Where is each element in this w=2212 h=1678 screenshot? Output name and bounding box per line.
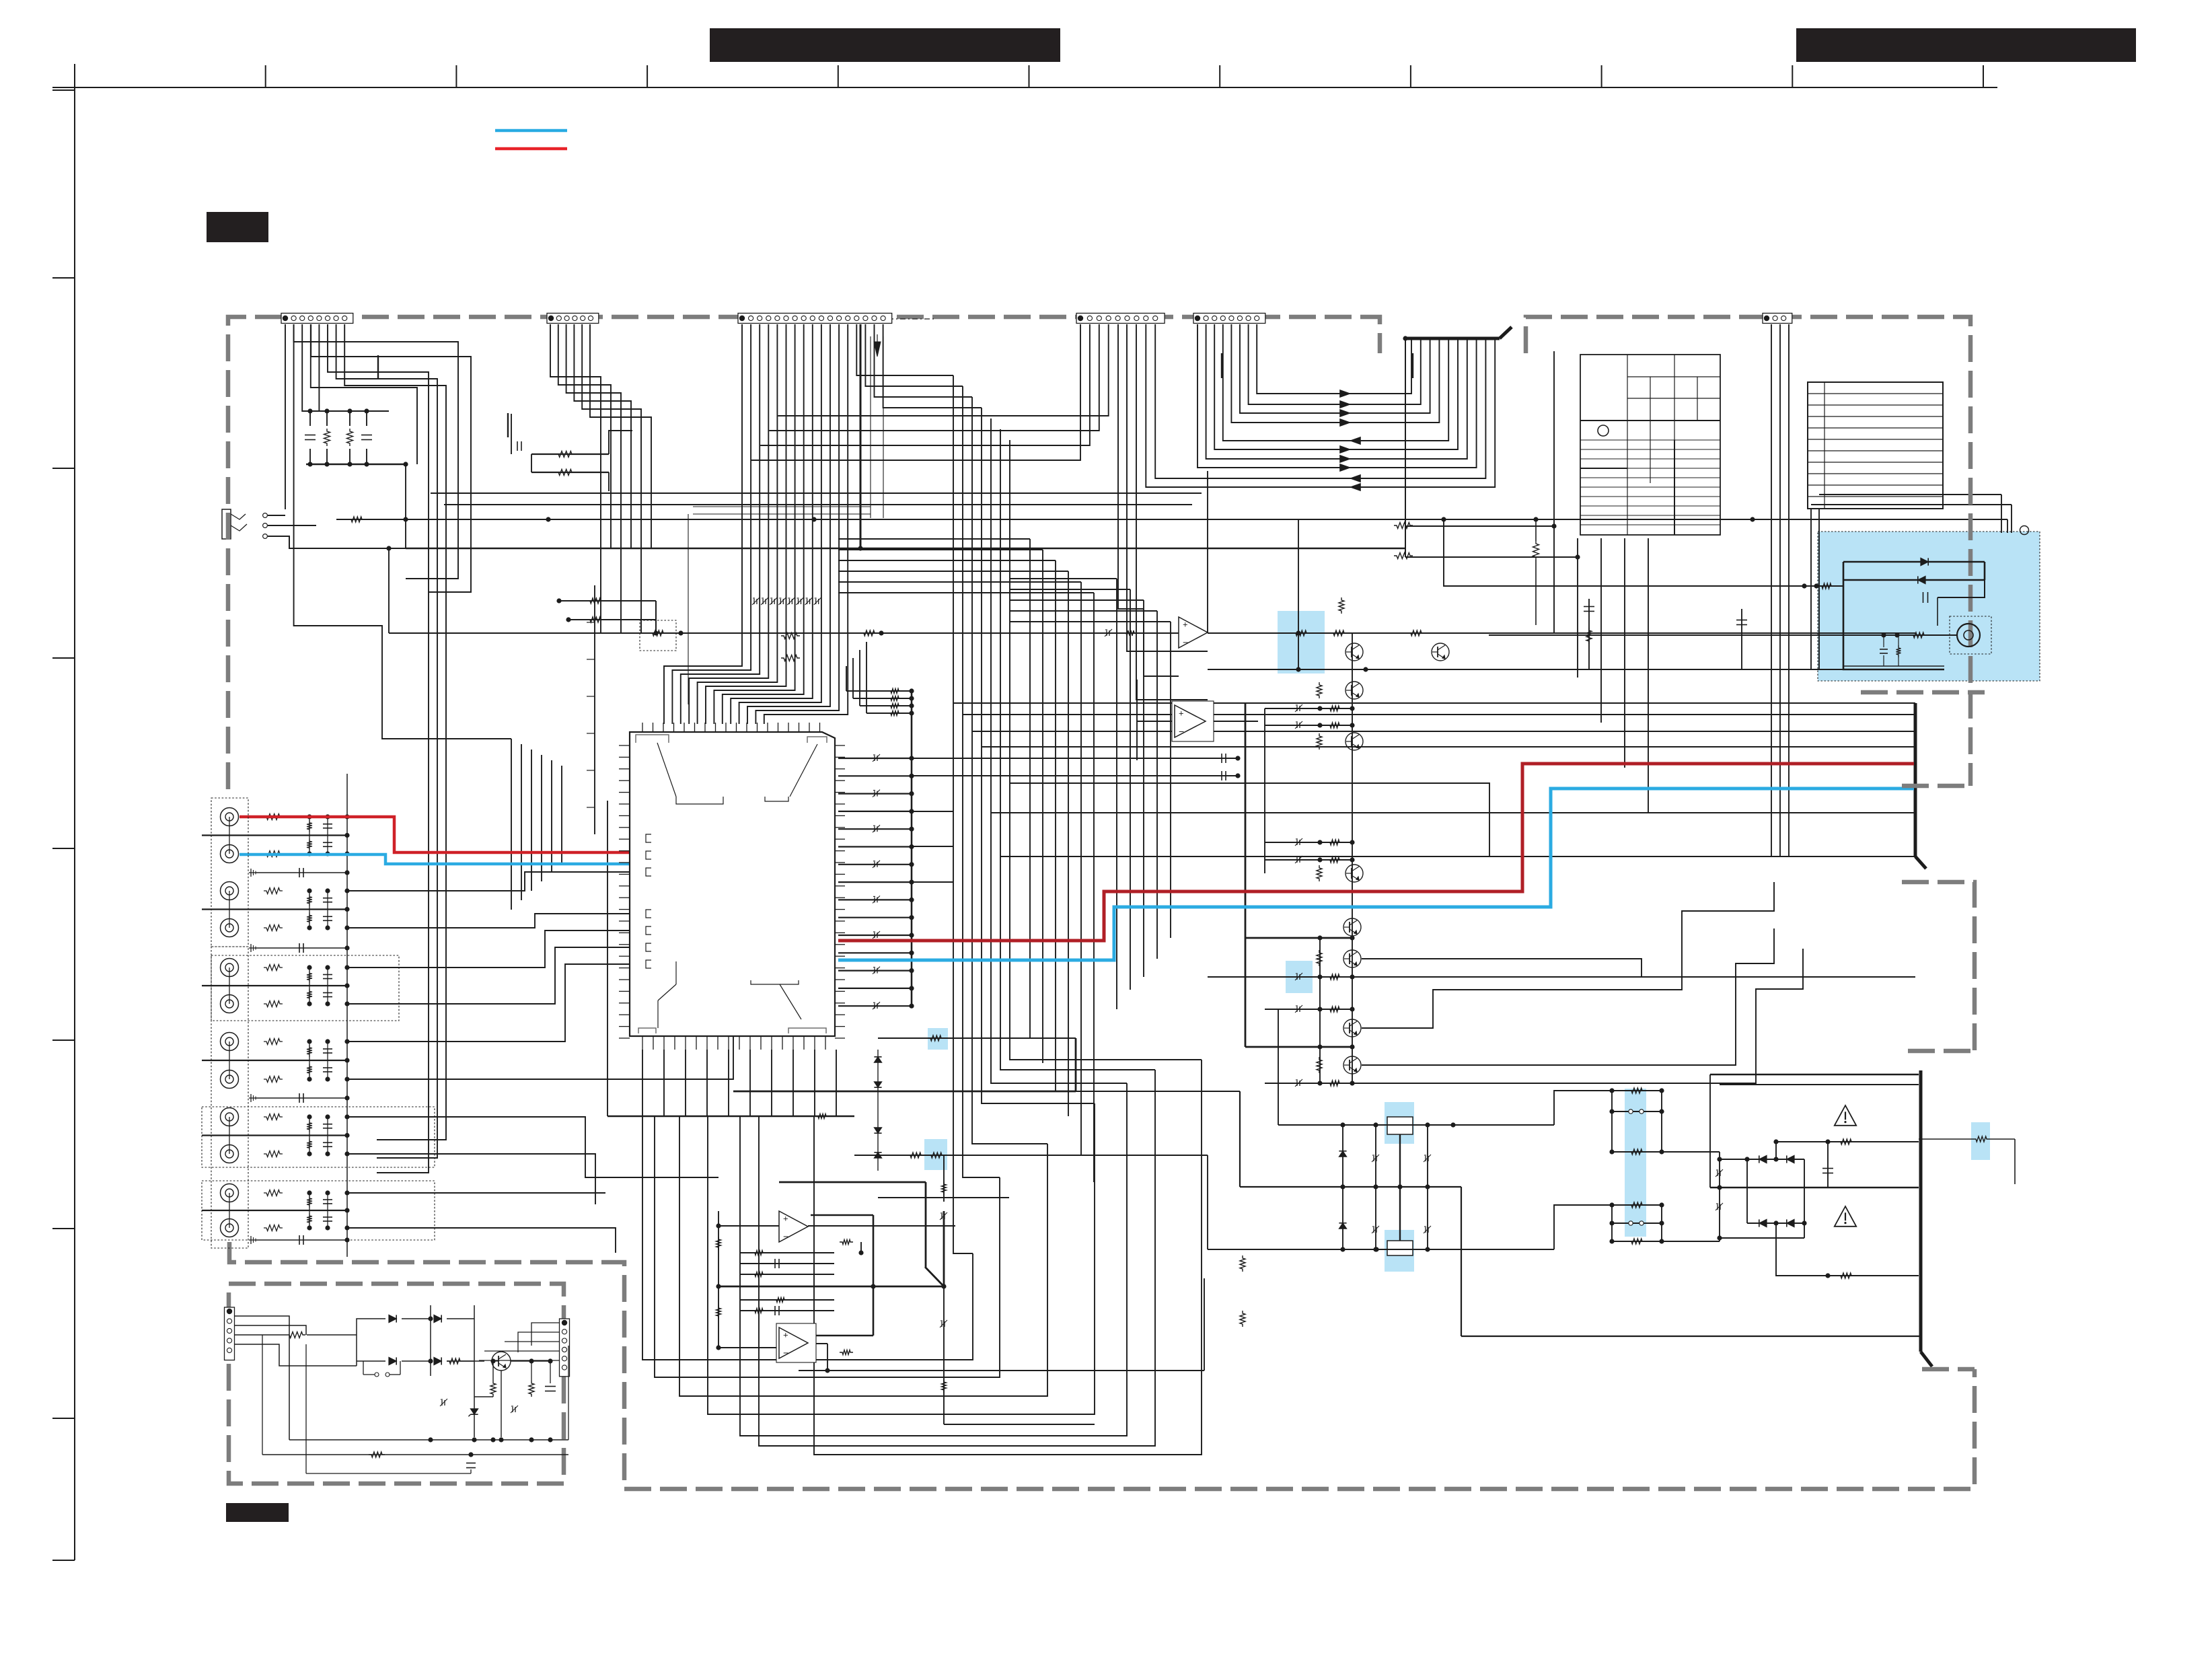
svg-text:+: + xyxy=(1179,708,1184,718)
transistor Q801 xyxy=(492,1352,511,1371)
legend cyan xyxy=(495,129,567,133)
highlight zener area 1 xyxy=(928,1028,948,1050)
relay RY1 box xyxy=(1387,1117,1413,1134)
headphone jack J1 xyxy=(222,509,231,539)
rca pair network xyxy=(309,1117,310,1154)
trimmers right bank xyxy=(1296,706,1298,711)
signal trace red right xyxy=(838,764,1914,941)
legend red xyxy=(495,147,567,151)
zener pairs near IC xyxy=(874,1057,881,1062)
transistors xyxy=(1345,643,1363,661)
connector CN105 8p xyxy=(1193,314,1265,324)
speaker SP xyxy=(1957,624,1980,647)
power supply circuit xyxy=(234,1316,289,1440)
connector CN102 6p xyxy=(547,314,599,324)
speaker dotted box xyxy=(1950,616,1991,654)
speaker resistor strip highlight xyxy=(1625,1089,1646,1237)
IC corner tabs xyxy=(636,735,669,743)
fuse resistor highlight xyxy=(1971,1122,1990,1160)
diodes D801-D804 xyxy=(389,1315,396,1322)
rca pair network xyxy=(309,1193,310,1228)
signal trace red left xyxy=(239,817,629,852)
rca group dotted boxes xyxy=(211,798,248,947)
opamps xyxy=(779,1211,808,1242)
bus to tuner board xyxy=(1221,353,1222,378)
connector CN103 17p xyxy=(738,314,892,324)
diodes relay area xyxy=(1339,1151,1346,1157)
voltage table 1 xyxy=(1580,355,1720,535)
relay RY2 box xyxy=(1387,1241,1413,1255)
svg-text:+: + xyxy=(783,1214,788,1224)
signal trace blue right xyxy=(838,789,1914,960)
IC bottom pins ticks xyxy=(642,1036,643,1050)
main board dashed border xyxy=(228,317,1380,789)
rca pair network xyxy=(309,817,310,854)
model bar xyxy=(1796,28,2136,62)
ruler top xyxy=(52,87,1997,88)
svg-text:−: − xyxy=(783,1347,788,1358)
speaker block wiring xyxy=(1843,561,1985,563)
connector CN104 9p xyxy=(1076,314,1165,324)
IC side pin ticks xyxy=(619,745,630,746)
IC1 system control / DSP xyxy=(630,732,835,1036)
relay RY2 highlight xyxy=(1385,1230,1414,1272)
rca pair network xyxy=(309,968,310,1004)
svg-text:−: − xyxy=(1183,636,1188,647)
rca pair network xyxy=(309,1042,310,1079)
dotted guides near IC xyxy=(688,514,689,704)
resistors RCA input xyxy=(264,814,283,820)
signal trace blue left xyxy=(239,854,629,864)
resistors misc mid xyxy=(556,451,575,458)
rca pair network xyxy=(309,891,310,928)
speaker output block highlight xyxy=(1818,532,2040,681)
relay RY1 highlight xyxy=(1385,1102,1414,1144)
right mid dashed border xyxy=(1902,882,1975,1051)
svg-text:−: − xyxy=(783,1231,788,1241)
svg-text:+: + xyxy=(1183,620,1188,630)
trimmers on ic right pins xyxy=(874,756,875,761)
power supply dashed border xyxy=(229,1284,564,1484)
IC inner markings xyxy=(657,743,676,797)
section label box 2 xyxy=(226,1503,289,1522)
caps misc xyxy=(1221,754,1222,763)
trimmer row on bus wires xyxy=(753,599,755,604)
rca jacks xyxy=(221,808,239,826)
connector CN801 5p vertical xyxy=(225,1307,235,1360)
arrows xyxy=(1340,390,1350,398)
highlight muting transistor area xyxy=(1278,611,1325,673)
connector CN802 6p vertical xyxy=(560,1319,570,1377)
IC top pins xyxy=(642,723,643,732)
section label box xyxy=(207,212,268,242)
caps C103/C104 + resistors R105/R106 input cluster xyxy=(305,435,316,436)
diodes D501-D504 xyxy=(1759,1155,1767,1163)
svg-text:−: − xyxy=(1179,726,1184,737)
ruler left xyxy=(74,64,75,1560)
connector CN101 8p xyxy=(281,314,353,324)
rca ground rail xyxy=(346,774,348,1257)
highlight resistor area xyxy=(1286,961,1313,993)
connector CN106 3p xyxy=(1763,314,1792,324)
highlight zener area 2 xyxy=(924,1139,947,1170)
title bar xyxy=(710,28,1060,62)
svg-text:+: + xyxy=(783,1330,788,1340)
voltage table 2 xyxy=(1808,382,1943,509)
wire network xyxy=(285,324,286,509)
warning triangles xyxy=(1835,1105,1856,1126)
tuner block dashed border xyxy=(1526,317,1970,786)
